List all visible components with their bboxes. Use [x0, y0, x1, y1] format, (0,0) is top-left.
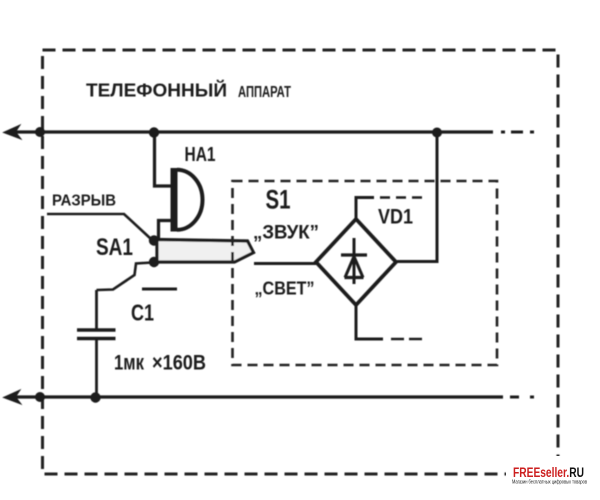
switch SA1 movable arrow contact	[157, 240, 254, 263]
wire: HA1 bottom lead	[159, 221, 171, 240]
wire: bottom line bus	[13, 395, 503, 398]
speaker HA1 body	[171, 168, 203, 232]
svg-text:„ЗВУК”: „ЗВУК”	[253, 222, 319, 244]
capacitor C1 plates	[77, 330, 116, 339]
junction dot top bus / HA1 branch	[149, 127, 159, 137]
junction dot top bus / border	[35, 127, 45, 137]
dash-dot continuation of top bus	[501, 131, 534, 134]
svg-text:S1: S1	[266, 185, 291, 215]
junction dot bottom bus / border	[35, 392, 45, 402]
svg-text:FREEseller.RU: FREEseller.RU	[513, 465, 584, 480]
junction dot bottom bus / C1	[90, 392, 100, 402]
wire: VD1 bottom vertex down and right (part dashed)	[356, 305, 425, 339]
svg-text:РАЗРЫВ: РАЗРЫВ	[52, 193, 116, 210]
wire: C1 bottom lead	[95, 340, 98, 397]
node: SA1 upper junction	[149, 235, 159, 245]
switch S1 dashed enclosure	[233, 181, 498, 365]
label: РАЗРЫВ with leader line	[47, 193, 151, 240]
diode symbol inside VD1	[341, 238, 367, 284]
wire: VD1 top vertex up and right (part dashed)	[356, 198, 428, 220]
junction dot top bus / VD1 branch	[432, 128, 442, 138]
svg-text:С1: С1	[131, 300, 154, 326]
svg-text:„СВЕТ”: „СВЕТ”	[255, 278, 315, 299]
logo background patch	[506, 456, 594, 487]
svg-text:1мк: 1мк	[114, 352, 144, 375]
wire: C1 top lead	[95, 290, 98, 329]
switch SA1 fixed contact	[142, 288, 177, 291]
node: SA1 lower junction	[149, 257, 159, 267]
label: ТЕЛЕФОННЫЙ АППАРАТ	[86, 80, 291, 102]
wire: top line bus	[13, 130, 493, 133]
wire: VD1 left vertex to switch	[254, 262, 316, 265]
diode bridge VD1 diamond body	[316, 219, 396, 305]
svg-text:HA1: HA1	[185, 144, 216, 166]
svg-text:×160В: ×160В	[152, 352, 206, 375]
arrowhead left on top bus	[4, 125, 22, 139]
wire: HA1 top lead	[155, 134, 171, 186]
telephone apparatus dashed enclosure	[43, 50, 559, 474]
svg-text:VD1: VD1	[378, 206, 413, 229]
wire: top bus down to VD1 right vertex	[397, 134, 437, 262]
arrowhead left on bottom bus	[4, 390, 22, 404]
dash-dot continuation of bottom bus	[510, 396, 534, 399]
svg-text:АППАРАТ: АППАРАТ	[238, 84, 291, 101]
svg-text:ТЕЛЕФОННЫЙ: ТЕЛЕФОННЫЙ	[86, 80, 227, 101]
wire: SA1 blade to C1	[97, 263, 153, 291]
svg-text:SA1: SA1	[96, 234, 133, 261]
svg-text:Магазин бесплатных цифровых то: Магазин бесплатных цифровых товаров	[512, 480, 587, 486]
